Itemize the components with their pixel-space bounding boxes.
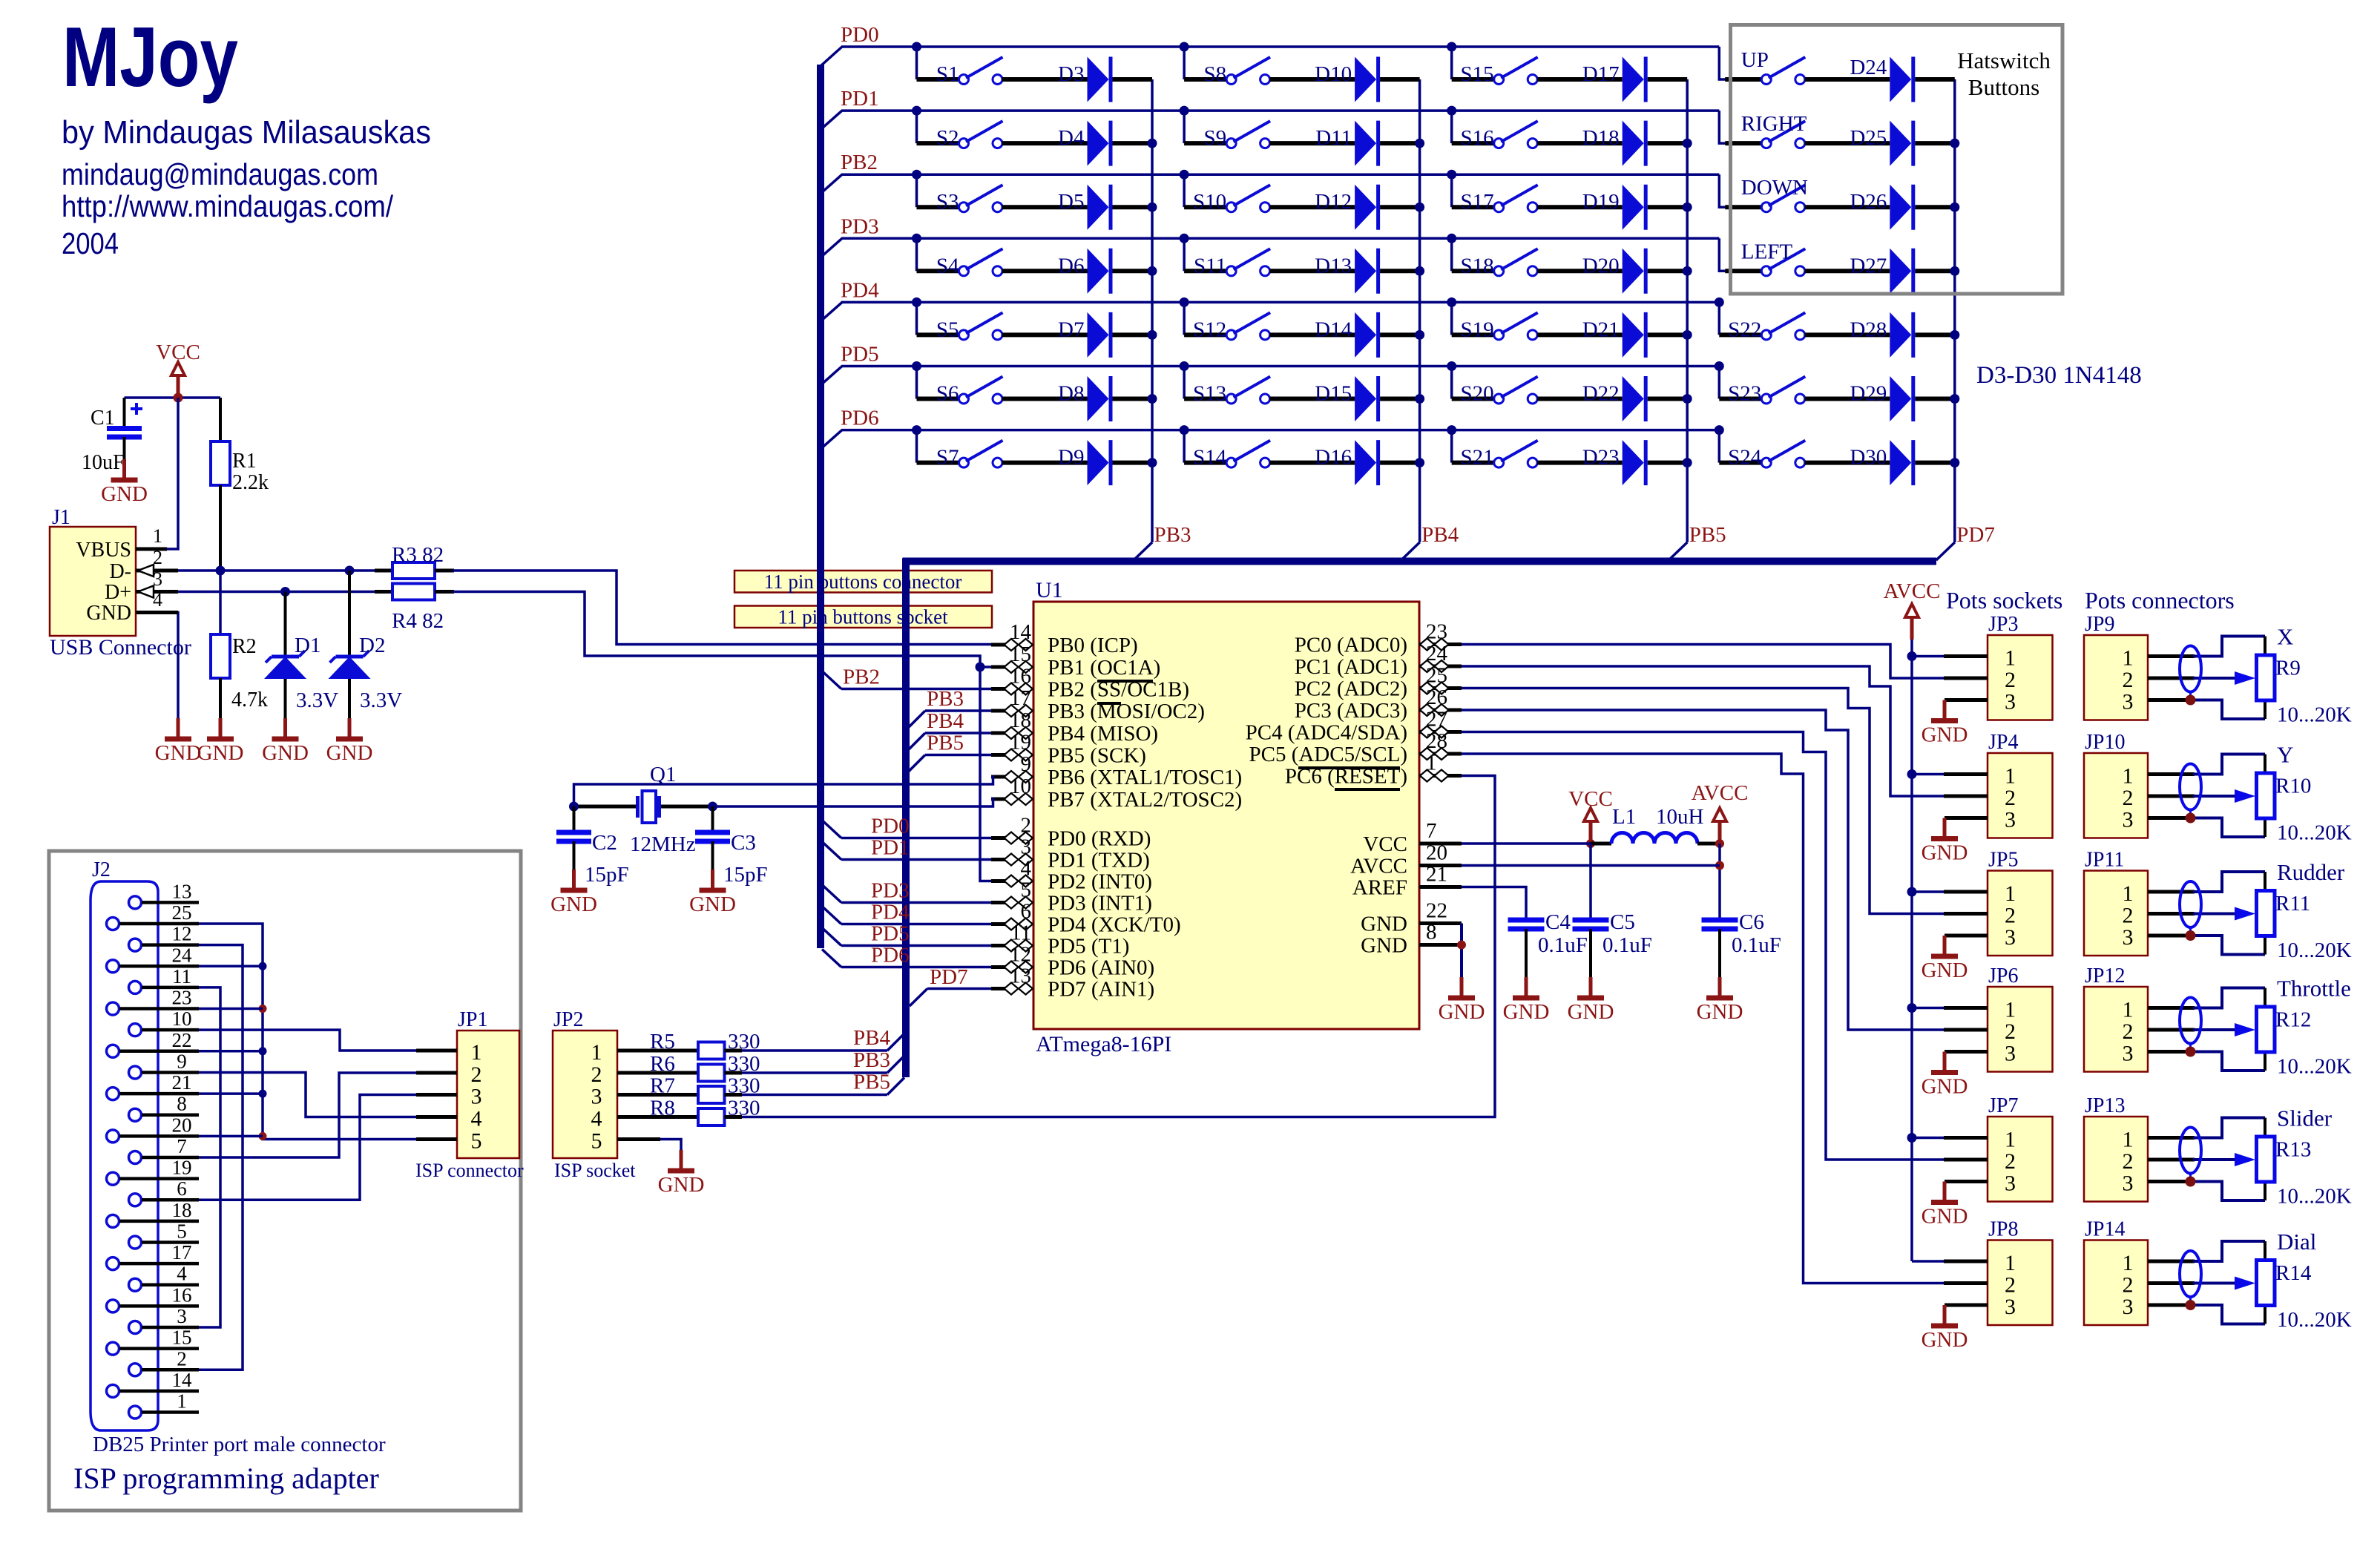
wire D20 to column	[1648, 269, 1688, 273]
wire row PD3	[841, 237, 1719, 240]
wire D5 to column	[1113, 205, 1153, 209]
connector JP14 pot connector	[2084, 1218, 2148, 1326]
svg-text:PB3 (MOSI/OC2): PB3 (MOSI/OC2)	[1048, 700, 1205, 723]
pin JP9.2 wire to wiper	[2148, 677, 2235, 680]
pin 21 AREF	[1352, 863, 1462, 900]
bus entry PD3	[823, 238, 842, 255]
svg-text:AVCC: AVCC	[1350, 855, 1407, 878]
svg-text:PD3 (INT1): PD3 (INT1)	[1048, 892, 1152, 916]
svg-text:5: 5	[471, 1129, 482, 1154]
wire S24 feed	[1719, 430, 1761, 463]
wire ADC3 to JP6.2	[1462, 710, 1944, 1030]
svg-text:VCC: VCC	[1363, 832, 1407, 856]
svg-text:10uF: 10uF	[82, 451, 125, 474]
svg-text:0.1uF: 0.1uF	[1538, 933, 1588, 957]
svg-text:AVCC: AVCC	[1884, 579, 1941, 603]
svg-text:GND: GND	[1922, 723, 1968, 747]
junction row PD5 col 3	[1447, 361, 1456, 371]
wire D12 to column	[1380, 205, 1420, 209]
svg-text:GND: GND	[326, 741, 373, 765]
wire S12 to D14	[1270, 332, 1355, 337]
wire D29 to column	[1915, 397, 1955, 401]
wire AREF to C4	[1462, 887, 1526, 921]
connector JP6 pot socket	[1988, 964, 2053, 1072]
svg-text:1: 1	[2123, 1251, 2134, 1275]
wire ADC5 to JP8.2	[1462, 754, 1944, 1284]
wire L1 to AVCC	[1697, 842, 1720, 846]
wire S4 to D6	[1002, 269, 1088, 273]
capacitor C1	[82, 403, 142, 474]
junction D6 output	[1148, 266, 1157, 276]
wire RESET R8 to PC6	[742, 776, 1495, 1117]
connector J1 USB	[50, 506, 162, 636]
resistor R8 330	[650, 1097, 760, 1126]
svg-text:S21: S21	[1461, 446, 1494, 470]
svg-text:D17: D17	[1582, 62, 1620, 86]
svg-text:2: 2	[2123, 786, 2134, 810]
svg-text:R3 82: R3 82	[392, 543, 444, 567]
svg-text:PB3: PB3	[853, 1048, 890, 1072]
svg-text:D25: D25	[1850, 126, 1887, 150]
capacitor C3 15pF	[695, 806, 768, 890]
pin JP5.3 stub	[1945, 934, 1988, 938]
svg-text:1: 1	[2005, 1128, 2016, 1152]
junction row PD1 col 2	[1180, 106, 1189, 116]
junction row PD1 col 1	[912, 106, 921, 116]
wire row PD6	[841, 429, 1719, 432]
wire D+ to PB1/PD2	[435, 592, 991, 881]
svg-text:R12: R12	[2275, 1008, 2311, 1032]
wire S2 feed	[917, 111, 959, 143]
svg-text:S7: S7	[936, 446, 959, 470]
pin 7 VCC	[1363, 819, 1462, 856]
svg-text:D3: D3	[1058, 62, 1084, 86]
junction row PD6 col 2	[1180, 425, 1189, 435]
diode D9	[1058, 440, 1111, 485]
svg-text:6: 6	[177, 1177, 187, 1200]
svg-text:R2: R2	[232, 635, 257, 658]
svg-text:D7: D7	[1058, 318, 1084, 341]
wire ADC2 to JP5.2	[1462, 689, 1944, 914]
svg-text:S10: S10	[1193, 190, 1226, 214]
svg-text:PB4: PB4	[853, 1026, 890, 1050]
svg-text:R6: R6	[650, 1052, 675, 1076]
wire D21 to column	[1648, 332, 1688, 337]
svg-text:Pots sockets: Pots sockets	[1946, 587, 2062, 614]
svg-text:1: 1	[471, 1040, 482, 1065]
diode D11	[1315, 121, 1378, 166]
pin JP7.1 stub	[1944, 1136, 1988, 1140]
junction D20 output	[1683, 266, 1692, 276]
wire D30 to column	[1915, 461, 1955, 465]
ground GND C3	[689, 870, 736, 916]
wire S21 to D23	[1537, 461, 1623, 465]
switch S11	[1194, 249, 1270, 277]
svg-text:D11: D11	[1315, 126, 1352, 150]
svg-text:D21: D21	[1582, 318, 1620, 341]
svg-text:3: 3	[2005, 925, 2016, 950]
svg-text:3: 3	[2005, 1295, 2016, 1319]
wire net PB3 from R6	[742, 1056, 904, 1073]
diode D25	[1850, 121, 1913, 166]
svg-text:GND: GND	[1922, 841, 1968, 865]
svg-text:D6: D6	[1058, 254, 1084, 277]
svg-text:10...20K: 10...20K	[2277, 1185, 2352, 1209]
wire S13 feed	[1184, 367, 1226, 399]
zener diode D2 3.3V	[329, 634, 403, 712]
ground GND JP2	[658, 1150, 705, 1197]
svg-text:D-: D-	[109, 560, 131, 583]
svg-text:1: 1	[2123, 646, 2134, 671]
svg-text:4.7k: 4.7k	[231, 689, 268, 712]
svg-text:PD7: PD7	[1956, 523, 1995, 547]
capacitor C6 0.1uF	[1702, 910, 1781, 998]
svg-text:17: 17	[172, 1241, 192, 1263]
junction D26 output	[1950, 203, 1959, 212]
svg-text:3: 3	[2005, 808, 2016, 832]
switch S3	[936, 185, 1003, 214]
svg-text:Rudder: Rudder	[2277, 859, 2345, 885]
svg-text:LEFT: LEFT	[1741, 240, 1793, 263]
wire S10 to D12	[1270, 205, 1355, 209]
diode D26	[1850, 185, 1913, 230]
svg-text:10...20K: 10...20K	[2277, 703, 2352, 727]
pin JP11.2 wire to wiper	[2148, 912, 2235, 916]
wire S20 feed	[1452, 367, 1494, 399]
connector JP11 pot connector	[2084, 849, 2148, 956]
svg-text:3: 3	[2123, 1295, 2134, 1319]
wire S3 feed	[917, 174, 959, 207]
bus entry PD1	[823, 111, 842, 128]
svg-text:23: 23	[172, 987, 192, 1009]
wire D4 to column	[1113, 141, 1153, 145]
pin 22 GND	[1361, 899, 1462, 936]
wire loopback J2.12 to J2.2	[199, 945, 243, 1370]
svg-text:24: 24	[1426, 642, 1448, 666]
svg-text:PD0 (RXD): PD0 (RXD)	[1048, 827, 1151, 851]
svg-text:10...20K: 10...20K	[2277, 821, 2352, 845]
svg-text:1: 1	[2123, 881, 2134, 906]
svg-text:16: 16	[172, 1284, 192, 1306]
junction D18 output	[1683, 139, 1692, 148]
svg-text:PB4: PB4	[1421, 523, 1459, 547]
junction C2 node	[569, 802, 579, 812]
pin JP1.2 stub	[416, 1071, 457, 1075]
wire S13 to D15	[1270, 397, 1355, 401]
ground GND JP8	[1922, 1305, 1968, 1352]
svg-text:15: 15	[172, 1327, 192, 1349]
diode D18	[1582, 121, 1646, 166]
pin J2.1	[129, 1390, 200, 1419]
bus entry PB5 to MCU	[909, 755, 991, 772]
pin JP7.2 stub	[1944, 1158, 1988, 1162]
svg-text:S12: S12	[1193, 318, 1226, 341]
svg-text:18: 18	[1010, 709, 1031, 732]
pin JP9.1 wire to pot	[2148, 637, 2265, 657]
svg-text:D24: D24	[1850, 56, 1887, 79]
junction row PD6 col 3	[1447, 425, 1456, 435]
wire crystal right	[661, 805, 713, 809]
resistor R3 82	[375, 543, 444, 579]
diode D8	[1058, 376, 1111, 421]
connector JP9 pot connector	[2084, 613, 2148, 720]
svg-text:3: 3	[2123, 1171, 2134, 1196]
svg-text:GND: GND	[1922, 1328, 1968, 1352]
connector JP3 pot socket	[1988, 613, 2053, 720]
svg-text:S15: S15	[1461, 62, 1494, 86]
wire VCC top node	[125, 396, 221, 399]
junction D1/D+	[280, 587, 290, 597]
wire D13 to column	[1380, 269, 1420, 273]
wire J2.10 to JP1.1	[199, 1030, 417, 1051]
switch S14	[1193, 441, 1270, 470]
underline ADC5/SCL	[1298, 766, 1400, 769]
svg-text:2: 2	[2005, 1019, 2016, 1044]
svg-text:3: 3	[2123, 1042, 2134, 1066]
pin J1.2 D- stub	[136, 569, 178, 573]
ic U1 ATmega8-16PI body	[1033, 578, 1419, 1056]
wire column output PB5	[1669, 79, 1687, 560]
svg-text:3: 3	[177, 1305, 187, 1327]
junction row PD1 col 3	[1447, 106, 1456, 116]
pin J2.17	[107, 1241, 200, 1270]
svg-text:15pF: 15pF	[585, 863, 629, 887]
svg-text:8: 8	[1426, 921, 1437, 944]
svg-text:14: 14	[1010, 620, 1032, 644]
pin JP13.3 wire to pot	[2148, 1182, 2265, 1201]
wire net D+	[178, 591, 392, 594]
wire D23 to column	[1648, 461, 1688, 465]
wire J2.7 to JP1.2	[199, 1073, 417, 1157]
svg-text:ISP connector: ISP connector	[415, 1160, 524, 1181]
wire S8 feed	[1184, 47, 1226, 79]
svg-text:PC1 (ADC1): PC1 (ADC1)	[1295, 655, 1407, 679]
svg-text:S1: S1	[936, 62, 959, 86]
pin J2.3	[129, 1305, 200, 1334]
svg-text:DB25 Printer port male connect: DB25 Printer port male connector	[93, 1433, 386, 1456]
switch S8	[1203, 57, 1270, 86]
pin JP14.3 wire to pot	[2148, 1305, 2265, 1324]
svg-text:S23: S23	[1728, 382, 1761, 406]
svg-text:PB2: PB2	[843, 666, 880, 689]
switch S12	[1193, 312, 1270, 341]
svg-text:D30: D30	[1850, 446, 1887, 470]
svg-text:Y: Y	[2277, 742, 2293, 768]
pin JP5.1 stub	[1944, 890, 1988, 894]
svg-text:AVCC: AVCC	[1692, 781, 1749, 805]
diode D23	[1582, 440, 1646, 485]
switch S22	[1728, 312, 1805, 341]
wire D10 to column	[1380, 77, 1420, 82]
junction D5 output	[1148, 203, 1157, 212]
wire J2 GND chain pins 25-20 to JP1.5	[199, 924, 417, 1139]
svg-text:Pots connectors: Pots connectors	[2085, 587, 2235, 614]
wire D24 to column	[1915, 77, 1955, 82]
junction row PD3 col 3	[1447, 234, 1456, 243]
wire D3 to column	[1113, 77, 1153, 82]
svg-text:GND: GND	[1922, 1205, 1968, 1229]
pin JP12.2 wire to wiper	[2148, 1028, 2235, 1032]
svg-text:VCC: VCC	[1568, 787, 1613, 811]
wire DOWN to D26	[1805, 205, 1890, 209]
pin JP13.2 wire to wiper	[2148, 1158, 2235, 1162]
pin JP10.2 wire to wiper	[2148, 795, 2235, 798]
pin J2.2	[129, 1347, 200, 1376]
wire R1 to D- net	[219, 485, 222, 571]
junction row PD4 col 2	[1180, 298, 1189, 307]
svg-text:7: 7	[177, 1135, 187, 1157]
junction D21 output	[1683, 330, 1692, 340]
svg-text:3: 3	[471, 1085, 482, 1109]
svg-text:28: 28	[1426, 729, 1447, 753]
wire ADC1 to JP4.2	[1462, 666, 1944, 796]
zener diode D1 3.3V	[264, 634, 338, 712]
junction AVCC pin	[1715, 839, 1724, 848]
wire S12 feed	[1184, 302, 1226, 335]
svg-text:S5: S5	[936, 318, 959, 341]
potentiometer R11 Rudder 10..20K	[2235, 859, 2352, 962]
pin 18 PB4	[991, 709, 1158, 746]
svg-text:18: 18	[172, 1199, 192, 1221]
svg-text:12MHz: 12MHz	[630, 832, 696, 856]
wire J2.9 to JP1.4	[199, 1072, 417, 1117]
junction D22 output	[1683, 394, 1692, 404]
svg-text:S9: S9	[1203, 126, 1226, 150]
svg-text:R1: R1	[232, 450, 257, 473]
svg-text:PB3: PB3	[927, 687, 964, 711]
svg-text:2: 2	[2123, 904, 2134, 928]
wire S15 feed	[1452, 47, 1494, 79]
svg-text:4: 4	[471, 1107, 482, 1131]
pin 11 PD5	[991, 921, 1129, 959]
svg-text:D28: D28	[1850, 318, 1887, 341]
pin J1.3 D+ stub	[136, 590, 178, 594]
bus entry PB2 to MCU	[822, 671, 991, 689]
svg-text:Hatswitch: Hatswitch	[1957, 47, 2051, 73]
pin 3 PD1	[991, 835, 1150, 872]
wire S9 feed	[1184, 111, 1226, 143]
pin JP8.1 stub	[1944, 1260, 1988, 1263]
bus entry PB4 to MCU	[909, 733, 991, 749]
svg-text:1: 1	[2123, 998, 2134, 1022]
svg-text:10...20K: 10...20K	[2277, 1055, 2352, 1079]
wire XTAL2 from PB7	[713, 799, 993, 806]
hatswitch box	[1731, 25, 2063, 295]
junction row PD6 col 1	[912, 425, 921, 435]
wire R2 from D-	[219, 571, 222, 634]
wire S16 to D18	[1537, 141, 1623, 145]
svg-text:PB4 (MISO): PB4 (MISO)	[1048, 722, 1158, 746]
pin J2.11	[129, 965, 200, 994]
wire row PB2	[841, 173, 1719, 176]
svg-text:S20: S20	[1461, 382, 1494, 406]
junction VCC node	[174, 393, 183, 403]
ground GND JP3	[1922, 700, 1968, 747]
wire S20 to D22	[1537, 397, 1623, 401]
pin JP1.5 stub	[416, 1137, 457, 1141]
diode D20	[1582, 249, 1646, 294]
wire row PD4	[841, 301, 1719, 304]
svg-text:R13: R13	[2275, 1138, 2311, 1162]
wire S14 to D16	[1270, 461, 1355, 465]
junction D14 output	[1415, 330, 1424, 340]
svg-text:PD2 (INT0): PD2 (INT0)	[1048, 870, 1152, 894]
junction AVCC JP6	[1907, 1003, 1917, 1013]
pin JP9.3 wire to pot	[2148, 700, 2265, 720]
svg-text:3: 3	[2005, 1042, 2016, 1066]
switch S17	[1461, 185, 1538, 214]
svg-text:4: 4	[591, 1107, 602, 1131]
wire XTAL1 from PB6	[574, 777, 993, 806]
potentiometer R12 Throttle 10..20K	[2235, 976, 2352, 1079]
svg-text:PD5 (T1): PD5 (T1)	[1048, 935, 1129, 959]
svg-text:JP3: JP3	[1988, 613, 2018, 636]
svg-text:1: 1	[2005, 764, 2016, 789]
pin JP6.2 stub	[1944, 1028, 1988, 1032]
svg-text:11: 11	[1010, 921, 1031, 945]
diode D24	[1850, 56, 1913, 102]
svg-text:PD1 (TXD): PD1 (TXD)	[1048, 849, 1150, 872]
wire D16 to column	[1380, 461, 1420, 465]
svg-text:9: 9	[177, 1050, 187, 1072]
pin JP4.3 stub	[1945, 816, 1988, 820]
wire AVCC to JP7.1	[1912, 1137, 1944, 1140]
junction row PB2 col 1	[912, 170, 921, 180]
svg-text:PB3: PB3	[1154, 523, 1191, 547]
power flag VCC	[156, 341, 200, 398]
wire D19 to column	[1648, 205, 1688, 209]
junction row PD5 col 1	[912, 361, 921, 371]
pin J2.15	[107, 1327, 200, 1355]
pin 16 PB2	[991, 665, 1189, 702]
svg-text:PD0: PD0	[841, 23, 879, 47]
diode D30	[1850, 440, 1913, 485]
wire D2 to GND	[348, 679, 351, 718]
svg-text:19: 19	[172, 1157, 192, 1179]
capacitor C5 0.1uF	[1573, 910, 1652, 998]
pin JP6.3 stub	[1945, 1050, 1988, 1054]
svg-text:S18: S18	[1461, 254, 1494, 277]
svg-text:D9: D9	[1058, 446, 1084, 470]
wire S21 feed	[1452, 430, 1494, 463]
wire AVCC vertical	[1718, 844, 1721, 920]
svg-text:10...20K: 10...20K	[2277, 939, 2352, 962]
junction row PD6 col 4	[1715, 425, 1724, 435]
power flag VCC near L1	[1568, 787, 1613, 844]
wire JP2.5 to GND	[660, 1140, 681, 1171]
svg-text:GND: GND	[1361, 913, 1407, 936]
svg-text:2.2k: 2.2k	[232, 471, 269, 494]
pin 4 PD2	[991, 857, 1152, 894]
svg-text:D13: D13	[1315, 254, 1352, 277]
wire pin 20 to chain	[199, 1135, 263, 1138]
wire S18 to D20	[1537, 269, 1623, 273]
wire DOWN feed	[1719, 174, 1761, 207]
ground GND C5	[1568, 977, 1614, 1024]
svg-text:PB6 (XTAL1/TOSC1): PB6 (XTAL1/TOSC1)	[1048, 766, 1242, 789]
svg-text:S11: S11	[1194, 254, 1226, 277]
pin 9 PB6	[991, 752, 1242, 789]
pin JP6.1 stub	[1944, 1006, 1988, 1010]
pin JP2.1 stub	[617, 1049, 660, 1053]
svg-text:DOWN: DOWN	[1741, 176, 1808, 200]
svg-text:PD1: PD1	[841, 87, 879, 111]
wire S1 feed	[917, 47, 959, 79]
svg-text:D5: D5	[1058, 190, 1084, 214]
resistor R5 330	[650, 1030, 760, 1059]
svg-text:http://www.mindaugas.com/: http://www.mindaugas.com/	[62, 189, 394, 223]
potentiometer R14 Dial 10..20K	[2235, 1229, 2352, 1332]
